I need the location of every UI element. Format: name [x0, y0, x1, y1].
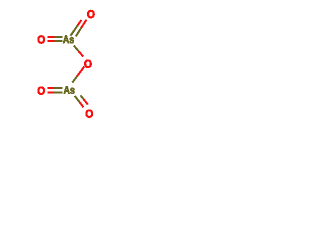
bond As1-O3 (single)	[74, 46, 83, 57]
atom O4 (bottom left oxygen)	[38, 87, 45, 95]
atom O3 (bridging oxygen)	[84, 60, 91, 68]
bond O4=As2 (double) line 1	[47, 87, 62, 89]
bond As2=O5 (double) line 2	[81, 95, 88, 104]
atom As2 (bottom arsenic)	[64, 86, 75, 94]
bond O4=As2 (double) line 2	[47, 91, 62, 93]
bond As1=O1 (double) line 1	[71, 20, 82, 36]
bond O3-As2 (single)	[72, 67, 84, 83]
bond O2=As1 (double) line 1	[47, 36, 62, 38]
bond As1=O1 (double) line 2	[76, 20, 87, 37]
atom As1 (top arsenic)	[63, 36, 74, 44]
bond As2=O5 (double) line 1	[75, 96, 84, 108]
molecule: diarsenic pentoxide As2O5 structural diagram	[0, 0, 130, 130]
atom O2 (left oxygen)	[38, 36, 45, 44]
bond O2=As1 (double) line 2	[47, 40, 62, 42]
atom O5 (bottom right oxygen)	[86, 110, 93, 118]
atom O1 (top right oxygen)	[87, 10, 94, 18]
